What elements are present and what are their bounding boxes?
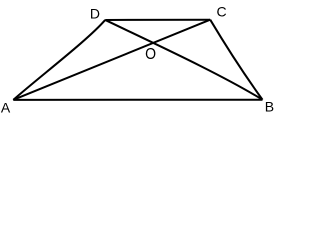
side AB <box>13 99 262 101</box>
svg-text:A: A <box>1 100 11 116</box>
side AD <box>13 20 105 100</box>
side BC <box>210 20 262 100</box>
svg-text:B: B <box>265 99 274 115</box>
diagonal AC <box>13 20 210 100</box>
side DC <box>105 19 210 21</box>
svg-text:C: C <box>217 4 227 20</box>
svg-text:D: D <box>90 5 100 21</box>
svg-text:O: O <box>145 45 156 63</box>
diagonal DB <box>105 20 262 100</box>
